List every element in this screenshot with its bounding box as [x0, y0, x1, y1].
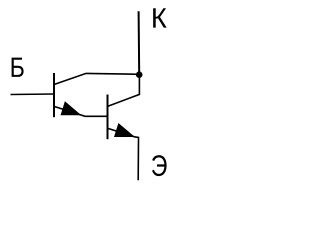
wire collector lead К	[138, 11, 141, 74]
transistor Q2 base bar	[107, 95, 109, 140]
transistor Q2 collector lead	[108, 74, 139, 106]
node junction dot	[136, 71, 143, 78]
wire base lead Б	[11, 93, 55, 96]
transistor Q1 emitter lead	[54, 107, 107, 117]
transistor Q1 emitter arrow	[61, 101, 82, 115]
label К	[153, 8, 167, 27]
transistor Q1 collector lead	[54, 73, 139, 84]
transistor Q2 emitter lead	[108, 128, 139, 180]
label Э	[152, 155, 167, 176]
label Б	[12, 58, 24, 77]
transistor Q1 base bar	[53, 73, 55, 117]
transistor Q2 emitter arrow	[114, 123, 135, 137]
